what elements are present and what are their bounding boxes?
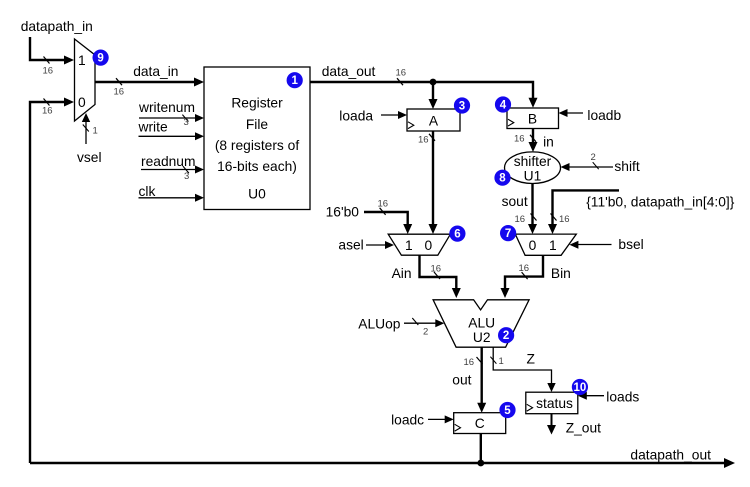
register C box [454, 413, 506, 434]
svg-text:2: 2 [591, 152, 596, 163]
svg-text:1: 1 [93, 126, 98, 137]
wire C output to datapath_out [480, 434, 482, 464]
svg-text:16: 16 [43, 66, 54, 77]
mux U9 (vsel input mux) [75, 39, 96, 121]
badge 8 shifter [494, 170, 510, 186]
register B clock triangle [508, 119, 514, 126]
svg-text:ALUop: ALUop [358, 317, 401, 332]
svg-text:2: 2 [503, 330, 509, 342]
svg-text:0: 0 [425, 238, 433, 253]
wire loada [381, 111, 407, 119]
svg-text:File: File [246, 117, 269, 132]
wire data_out [310, 82, 533, 101]
svg-text:loadc: loadc [391, 413, 424, 428]
svg-text:1: 1 [78, 53, 86, 68]
wire A output to asel mux [429, 131, 438, 234]
svg-text:9: 9 [97, 53, 103, 65]
svg-text:0: 0 [529, 238, 537, 253]
svg-text:bsel: bsel [618, 237, 643, 252]
svg-text:1: 1 [405, 238, 413, 253]
bus-width slash Ain 16 [434, 272, 440, 279]
svg-text:U1: U1 [524, 169, 542, 184]
bus-width slash data_out 16 [397, 78, 403, 85]
svg-text:5: 5 [504, 405, 511, 417]
svg-text:10: 10 [574, 382, 587, 394]
svg-text:data_out: data_out [322, 64, 376, 79]
bus-width slash writenum 3 [182, 115, 188, 122]
bus-width slash concat 16 [551, 214, 557, 221]
wire data_in [95, 78, 204, 87]
svg-text:16'b0: 16'b0 [326, 205, 360, 220]
ALU U2 shape [433, 300, 529, 347]
svg-text:U0: U0 [248, 187, 266, 202]
arrowhead data_out into B [529, 98, 538, 108]
mux U7 (bsel mux) [515, 234, 576, 255]
status register box [526, 392, 578, 414]
wire datapath_in input [30, 37, 74, 65]
svg-text:Register: Register [231, 96, 283, 111]
wire vsel [82, 113, 90, 144]
svg-text:16-bits each): 16-bits each) [217, 159, 297, 174]
svg-text:readnum: readnum [141, 154, 195, 169]
bus-width slash feedback 16 [44, 99, 50, 106]
svg-text:in: in [543, 135, 554, 150]
wire datapath_out [30, 458, 735, 468]
svg-text:vsel: vsel [77, 150, 102, 165]
bus-width slash Bin 16 [522, 272, 528, 279]
svg-text:16: 16 [431, 264, 442, 275]
svg-text:16: 16 [519, 263, 530, 274]
wire loadb [559, 109, 584, 117]
svg-text:3: 3 [184, 171, 189, 182]
register file U0 text [215, 96, 300, 202]
svg-text:Z: Z [527, 352, 535, 367]
ALU U2 text [468, 316, 495, 346]
badge 2 ALU [498, 327, 514, 343]
wire Z (ALU to status) [493, 347, 556, 392]
wire asel [366, 241, 394, 249]
badge 3 register A [454, 97, 470, 113]
bus-width slash B out 16 [530, 135, 536, 142]
bus-width slash readnum 3 [183, 166, 189, 173]
svg-text:16: 16 [378, 199, 389, 210]
register B box [507, 108, 559, 129]
svg-text:datapath_out: datapath_out [630, 448, 711, 463]
svg-text:clk: clk [139, 184, 156, 199]
wire bsel [569, 241, 611, 249]
mux U6 (asel mux) [388, 234, 450, 255]
junction dot C output on datapath_out [477, 460, 484, 467]
svg-text:16: 16 [515, 214, 526, 225]
svg-text:16: 16 [396, 68, 407, 79]
svg-text:status: status [536, 396, 573, 411]
svg-text:16: 16 [114, 87, 125, 98]
svg-text:4: 4 [500, 100, 507, 112]
svg-text:loads: loads [606, 390, 639, 405]
register file U0 box [204, 67, 310, 210]
svg-text:{11'b0, datapath_in[4:0]}: {11'b0, datapath_in[4:0]} [586, 195, 735, 210]
wire writenum [139, 114, 204, 122]
svg-text:B: B [528, 112, 537, 127]
bus-width slash Z 1 [490, 357, 496, 364]
junction dot data_out branch [430, 79, 437, 86]
svg-text:writenum: writenum [138, 100, 195, 115]
shifter U1 text [514, 154, 552, 184]
svg-text:16: 16 [42, 106, 53, 117]
wire Ain (asel mux out to ALU) [420, 255, 461, 298]
svg-text:6: 6 [454, 229, 460, 241]
wire write [139, 132, 205, 140]
wire shift [561, 163, 614, 171]
svg-text:U2: U2 [473, 330, 491, 345]
wire clk [139, 194, 205, 202]
wire data_out branch to A [429, 82, 438, 109]
svg-text:loada: loada [339, 108, 373, 123]
svg-text:Ain: Ain [392, 266, 412, 281]
register C clock triangle [455, 424, 461, 431]
wire sout to bsel mux [528, 184, 537, 235]
svg-text:3: 3 [459, 101, 465, 113]
wire Bin (bsel mux out to ALU) [501, 255, 544, 298]
svg-text:asel: asel [338, 238, 363, 253]
bus-width slash sout 16 [531, 214, 537, 221]
svg-text:16: 16 [418, 135, 429, 146]
register A box [407, 109, 460, 131]
svg-text:out: out [452, 373, 471, 388]
svg-text:Z_out: Z_out [566, 421, 601, 436]
svg-text:3: 3 [184, 117, 189, 128]
svg-text:16: 16 [514, 134, 525, 145]
svg-text:8: 8 [499, 173, 506, 185]
status register clock triangle [527, 404, 533, 411]
wire constant concat to bsel mux [548, 190, 619, 234]
wire ALUop [404, 319, 444, 327]
svg-text:0: 0 [78, 95, 86, 110]
svg-text:loadb: loadb [587, 108, 621, 123]
bus-width slash data_in 16 [116, 78, 122, 85]
svg-text:datapath_in: datapath_in [21, 19, 93, 34]
wire readnum [141, 166, 204, 174]
svg-text:ALU: ALU [468, 316, 495, 331]
badge 1 register file [287, 72, 303, 88]
badge 9 vsel mux [93, 50, 109, 66]
wire feedback to mux input 0 [30, 98, 74, 464]
shifter U1 ellipse [505, 152, 561, 184]
svg-text:16: 16 [464, 357, 475, 368]
svg-text:shift: shift [614, 159, 639, 174]
bus-width slash datapath_in 16 [44, 57, 50, 64]
badge 4 register B [495, 96, 511, 112]
wire out (ALU to C) [477, 347, 486, 413]
wire loadc [428, 415, 454, 423]
badge 5 register C [499, 402, 515, 418]
badge 7 bsel mux [500, 225, 516, 241]
wire B output to shifter [529, 128, 538, 152]
svg-text:1: 1 [499, 356, 504, 367]
badge 6 asel mux [449, 226, 465, 242]
svg-text:C: C [475, 416, 485, 431]
bus-width slash 16'b0 16 [380, 208, 386, 215]
svg-text:A: A [429, 114, 439, 129]
bus-width slash shift 2 [593, 162, 599, 169]
svg-text:data_in: data_in [133, 64, 178, 79]
svg-text:16: 16 [559, 214, 570, 225]
svg-text:7: 7 [505, 228, 511, 240]
wire 16'b0 to asel mux [364, 212, 412, 234]
svg-text:1: 1 [291, 75, 298, 87]
bus-width slash A out 16 [429, 134, 435, 141]
wire Z_out [547, 414, 556, 435]
bus-width slash ALUop 2 [412, 318, 418, 325]
bus-width slash out 16 [477, 357, 483, 364]
svg-text:(8 registers of: (8 registers of [215, 138, 300, 153]
svg-text:2: 2 [423, 327, 428, 338]
bus-width slash vsel 1 [83, 125, 89, 132]
svg-text:1: 1 [549, 238, 557, 253]
svg-text:write: write [138, 120, 168, 135]
svg-text:sout: sout [502, 194, 528, 209]
svg-text:Bin: Bin [551, 266, 571, 281]
svg-text:shifter: shifter [514, 154, 552, 169]
wire loads [578, 392, 604, 400]
badge 10 status [572, 379, 588, 395]
register A clock triangle [408, 122, 414, 129]
